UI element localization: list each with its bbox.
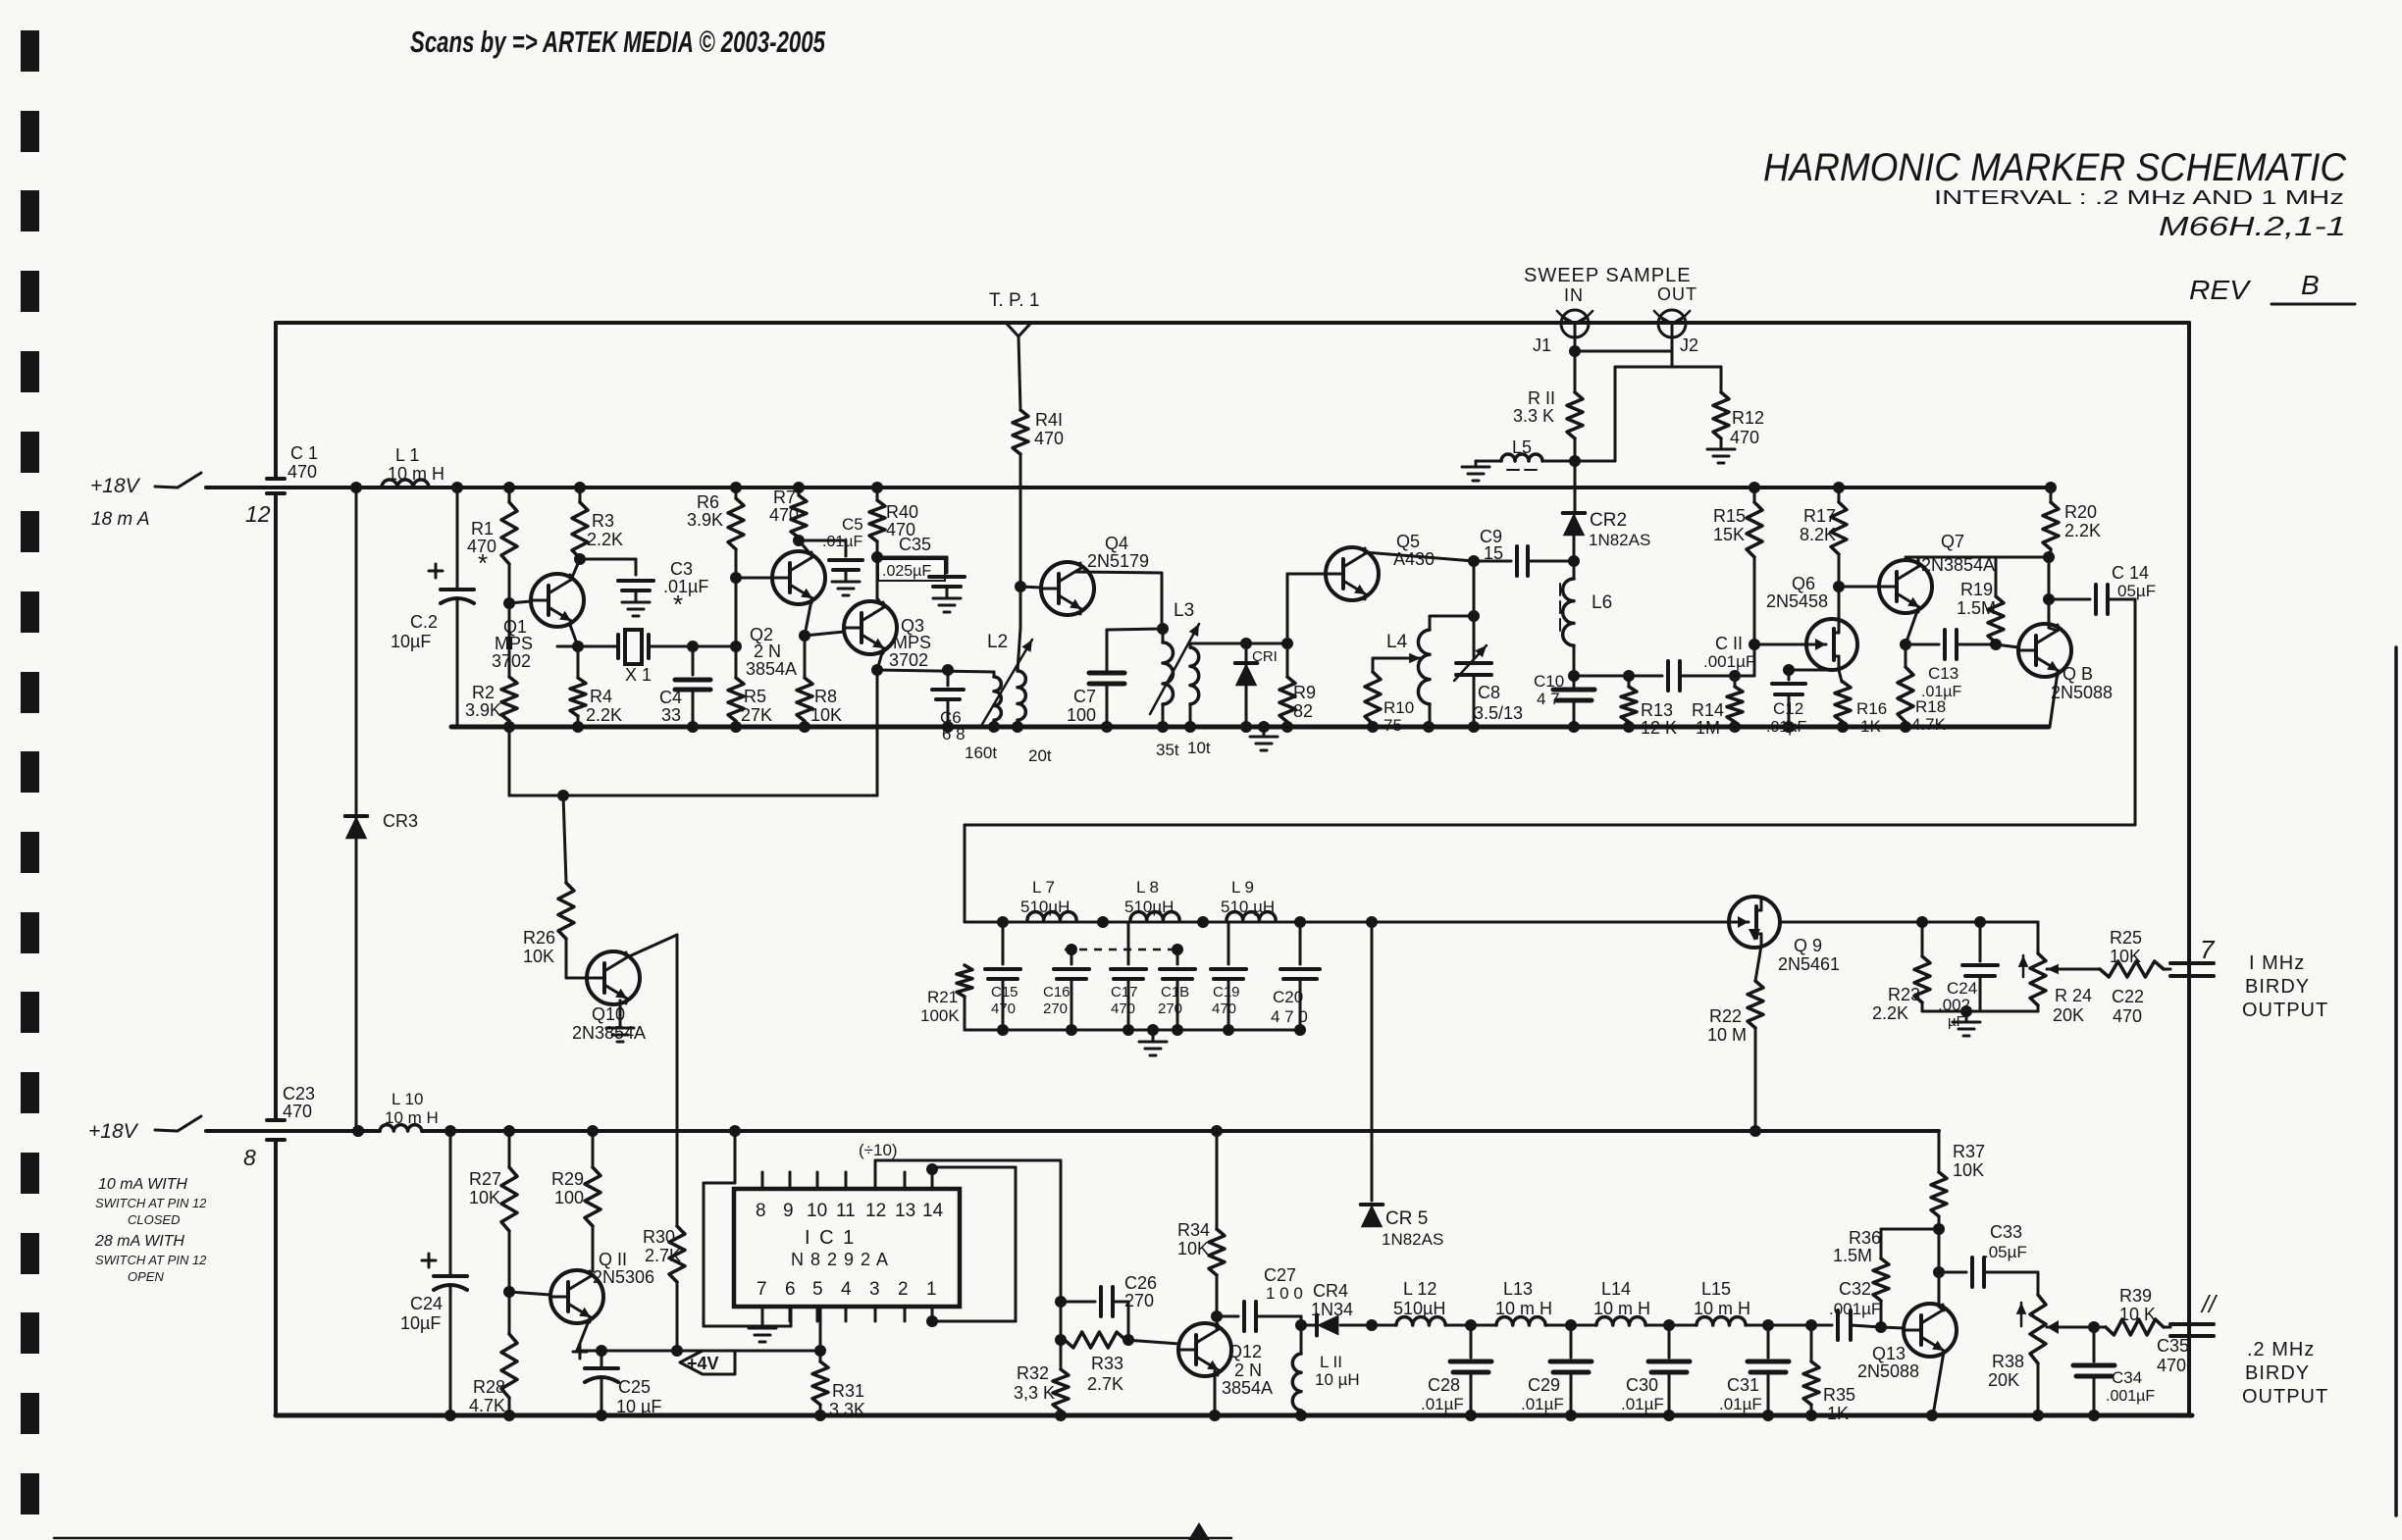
svg-text:.01µF: .01µF — [1766, 719, 1806, 736]
label .2MHz BIRDY OUTPUT — [2242, 1339, 2328, 1408]
svg-text:12 K: 12 K — [1641, 718, 1677, 738]
potentiometer R24 — [2018, 922, 2092, 1025]
capacitor C30 — [1621, 1319, 1690, 1421]
svg-text:470: 470 — [287, 462, 317, 482]
svg-text://: // — [2200, 1291, 2219, 1318]
resistor R20 — [2043, 482, 2101, 557]
potentiometer R38 — [1988, 1295, 2094, 1421]
resistor R7 — [769, 482, 811, 555]
capacitor C26 — [1061, 1273, 1157, 1340]
svg-text:C17: C17 — [1111, 984, 1138, 1001]
svg-text:.001µF: .001µF — [1829, 1300, 1881, 1318]
svg-text:2N5458: 2N5458 — [1766, 591, 1828, 611]
svg-text:R15: R15 — [1713, 506, 1746, 526]
resistor R41 — [1013, 410, 1064, 587]
inductor L15 — [1669, 1279, 1768, 1325]
svg-text:.01µF: .01µF — [1719, 1395, 1762, 1413]
capacitor C34 — [2073, 1321, 2155, 1421]
svg-text:3.3 K: 3.3 K — [1513, 406, 1554, 426]
wire bottom ground rail — [276, 1413, 2192, 1418]
svg-text:R 24: R 24 — [2055, 986, 2092, 1005]
svg-text:10 m H: 10 m H — [1694, 1299, 1750, 1318]
connector J2 — [1654, 310, 1698, 355]
svg-text:CLOSED: CLOSED — [128, 1212, 180, 1227]
node L6 bottom — [1568, 670, 1662, 682]
svg-text:R34: R34 — [1177, 1220, 1210, 1240]
resistor R30 — [643, 1226, 685, 1354]
svg-text:J2: J2 — [1680, 335, 1698, 355]
label 160t — [965, 744, 997, 762]
capacitor C18 — [1158, 944, 1195, 1030]
note 10 mA switch closed — [95, 1176, 207, 1227]
svg-text:C15: C15 — [991, 984, 1018, 1001]
wire filter bottom — [965, 1024, 1306, 1036]
svg-text:10 K: 10 K — [2119, 1305, 2156, 1324]
svg-text:L14: L14 — [1601, 1279, 1631, 1299]
capacitor C15 — [985, 922, 1020, 1030]
svg-text:BIRDY: BIRDY — [2245, 976, 2310, 998]
svg-text:OPEN: OPEN — [128, 1269, 164, 1284]
svg-text:100K: 100K — [920, 1006, 960, 1025]
svg-text:L13: L13 — [1503, 1279, 1533, 1299]
svg-text:7: 7 — [2200, 935, 2216, 964]
capacitor C6 — [932, 670, 966, 744]
svg-text:T. P. 1: T. P. 1 — [989, 290, 1039, 311]
svg-text:.001µF: .001µF — [1703, 652, 1755, 671]
svg-text:R37: R37 — [1953, 1142, 1985, 1161]
svg-text:470: 470 — [2113, 1006, 2142, 1026]
capacitor C33 — [1938, 1222, 2038, 1295]
resistor R16 — [1835, 670, 1887, 736]
svg-text:3,3 K: 3,3 K — [1014, 1383, 1055, 1403]
capacitor C27 — [1217, 1265, 1303, 1331]
svg-text:2N5179: 2N5179 — [1087, 551, 1149, 571]
svg-text:10 m H: 10 m H — [1495, 1299, 1552, 1318]
wire Q10 collector riser — [627, 935, 677, 1226]
svg-text:C16: C16 — [1043, 984, 1070, 1001]
svg-text:3.9K: 3.9K — [465, 700, 501, 720]
note 28 mA switch open — [94, 1233, 207, 1284]
svg-text:10K: 10K — [469, 1188, 500, 1207]
svg-text:35t: 35t — [1156, 741, 1179, 759]
svg-text:L 1: L 1 — [395, 445, 419, 465]
svg-text:L6: L6 — [1592, 592, 1612, 613]
svg-text:R18: R18 — [1915, 697, 1946, 716]
terminal 7 capacitor C22 — [2112, 935, 2216, 1026]
inductor L1 — [382, 445, 444, 488]
svg-text:18 m A: 18 m A — [91, 509, 150, 530]
capacitor C24 electrolytic — [400, 1131, 467, 1421]
svg-text:10K: 10K — [523, 947, 554, 966]
resistor R22 — [1707, 946, 1763, 1137]
svg-text:1K: 1K — [1860, 717, 1881, 736]
transistor Q7 — [1839, 532, 1995, 613]
terminal 11 capacitor C35 — [2157, 1291, 2219, 1375]
svg-text:12: 12 — [245, 501, 271, 527]
capacitor C2 electrolytic — [391, 482, 474, 727]
svg-text:C10: C10 — [1534, 672, 1564, 691]
svg-text:C8: C8 — [1478, 683, 1500, 702]
svg-text:R38: R38 — [1992, 1352, 2024, 1371]
svg-text:10K: 10K — [2110, 947, 2141, 966]
svg-text:2.7K: 2.7K — [645, 1246, 681, 1265]
svg-text:5: 5 — [812, 1279, 823, 1300]
ground under R12 — [1707, 449, 1735, 463]
svg-text:.2 MHz: .2 MHz — [2247, 1339, 2315, 1360]
svg-text:14: 14 — [922, 1201, 944, 1221]
label +18V upper — [90, 475, 141, 497]
svg-text:R25: R25 — [2110, 928, 2142, 948]
svg-text:C33: C33 — [1990, 1222, 2022, 1242]
svg-text:1.5M: 1.5M — [1957, 598, 1996, 618]
wire pin14 loop — [926, 1163, 1016, 1327]
fet Q6 — [1754, 574, 1857, 670]
wire Q13 collector node — [1933, 1229, 1945, 1310]
svg-text:L4: L4 — [1386, 632, 1408, 652]
subtitle M66H.2,1-1 — [2159, 211, 2346, 241]
svg-text:9: 9 — [783, 1201, 794, 1221]
svg-text:R8: R8 — [814, 687, 837, 706]
test point T.P.1 — [989, 290, 1039, 410]
svg-text:SWITCH AT PIN 12: SWITCH AT PIN 12 — [95, 1196, 207, 1210]
resistor R32 — [1014, 1296, 1069, 1421]
svg-text:3.9K: 3.9K — [687, 510, 723, 530]
svg-text:20K: 20K — [1988, 1370, 2019, 1390]
resistor R40 — [869, 482, 918, 606]
wire divider bottom — [1922, 1005, 2038, 1017]
resistor R26 — [523, 790, 574, 978]
resistor R8 — [797, 600, 842, 733]
svg-text:R3: R3 — [592, 511, 614, 531]
svg-text:C26: C26 — [1124, 1273, 1157, 1293]
wire Q13 emitter — [1926, 1352, 1944, 1421]
svg-text:R2: R2 — [472, 683, 495, 702]
resistor R15 — [1713, 482, 1762, 676]
svg-text:15: 15 — [1484, 543, 1503, 563]
svg-text:R4: R4 — [590, 687, 612, 706]
svg-text:R9: R9 — [1293, 683, 1316, 702]
transistor Q1 — [492, 574, 584, 671]
svg-text:2.2K: 2.2K — [586, 705, 622, 725]
svg-text:C5: C5 — [842, 515, 863, 534]
svg-text:.01µF: .01µF — [1621, 1395, 1664, 1413]
svg-text:M66H.2,1-1: M66H.2,1-1 — [2159, 211, 2346, 241]
capacitor C14 — [2049, 563, 2156, 614]
svg-text:2.2K: 2.2K — [1872, 1003, 1908, 1023]
svg-text:L3: L3 — [1174, 600, 1194, 621]
svg-text:+4V: +4V — [687, 1354, 719, 1373]
svg-text:10K: 10K — [1177, 1239, 1209, 1258]
resistor R25 — [2080, 928, 2170, 977]
resistor R27 — [469, 1125, 517, 1298]
resistor R33 — [1065, 1332, 1179, 1394]
svg-text:.001µF: .001µF — [2106, 1388, 2155, 1405]
svg-text:82: 82 — [1293, 701, 1313, 721]
svg-text:10 M: 10 M — [1707, 1025, 1747, 1045]
transistor Q10 — [566, 951, 646, 1043]
svg-text:C35: C35 — [899, 535, 931, 554]
svg-text:7: 7 — [757, 1279, 767, 1300]
capacitor C19 — [1211, 922, 1246, 1030]
svg-text:Q 9: Q 9 — [1794, 936, 1822, 955]
resistor R11 — [1513, 351, 1583, 461]
svg-text:10 µF: 10 µF — [616, 1397, 661, 1416]
transistor Q12 — [1178, 1323, 1273, 1398]
page bottom edge line — [54, 1537, 1231, 1540]
svg-text:.01µF: .01µF — [663, 577, 708, 596]
svg-text:11: 11 — [836, 1201, 856, 1221]
svg-text:1: 1 — [926, 1279, 937, 1300]
resistor R5 — [728, 646, 772, 733]
svg-text:4 7: 4 7 — [1537, 690, 1560, 708]
wire pin12 to divider feed — [875, 1160, 1061, 1302]
svg-text:6 8: 6 8 — [942, 725, 966, 744]
transistor Q13 — [1857, 1304, 1957, 1381]
scan credit line — [410, 25, 826, 59]
inductor L9 — [1221, 878, 1276, 920]
resistor R28 — [469, 1292, 517, 1421]
revision REV B — [2189, 270, 2355, 305]
label SWEEP SAMPLE — [1524, 265, 1692, 286]
svg-text:4.7K: 4.7K — [1911, 715, 1947, 734]
svg-text:10K: 10K — [1953, 1160, 1984, 1180]
svg-text:R4I: R4I — [1035, 410, 1063, 430]
svg-text:8.2K: 8.2K — [1800, 525, 1836, 544]
svg-text:1.5M: 1.5M — [1833, 1246, 1872, 1265]
inductor L4 tapped — [1386, 561, 1480, 733]
ic IC1 N8292A — [734, 1172, 960, 1321]
svg-text:B: B — [2301, 270, 2320, 300]
svg-text:33: 33 — [661, 705, 681, 725]
inductor L8 — [1124, 878, 1179, 920]
svg-text:.025µF: .025µF — [882, 563, 931, 580]
svg-text:C23: C23 — [283, 1084, 315, 1104]
capacitor C31 — [1719, 1319, 1789, 1421]
svg-text:3: 3 — [869, 1279, 880, 1300]
ground left of L5 — [1462, 461, 1489, 481]
diode CR5 — [1361, 1205, 1444, 1249]
capacitor C32 — [1768, 1279, 1881, 1340]
wire Q9 drain to divider — [1780, 916, 2038, 928]
capacitor C17 — [1111, 922, 1146, 1030]
svg-text:3854A: 3854A — [1222, 1378, 1273, 1398]
capacitor C13 — [1900, 608, 1996, 700]
svg-text:R7: R7 — [773, 488, 796, 507]
inductor L2 variable — [981, 587, 1032, 733]
wire filter output riser — [1371, 922, 1374, 1201]
label divide by 10 — [859, 1141, 898, 1159]
svg-text:R26: R26 — [523, 928, 555, 948]
svg-text:REV: REV — [2189, 275, 2251, 305]
wire Q8 emitter to bus — [2050, 672, 2058, 727]
svg-text:J1: J1 — [1533, 335, 1551, 355]
svg-text:470: 470 — [2157, 1356, 2186, 1375]
switch at +18V lower feed — [155, 1116, 201, 1131]
svg-text:CR3: CR3 — [383, 811, 418, 831]
node Q4 base — [1015, 581, 1026, 592]
svg-text:470: 470 — [991, 1001, 1016, 1017]
wire pin 6 stub — [704, 1125, 791, 1326]
svg-text:L 9: L 9 — [1231, 878, 1254, 897]
inductor L10 — [352, 1090, 456, 1137]
label 10t — [1187, 739, 1211, 757]
svg-text:510µH: 510µH — [1020, 898, 1070, 916]
svg-text:Q4: Q4 — [1105, 534, 1128, 553]
resistor R36 — [1833, 1228, 1939, 1333]
svg-text:10µF: 10µF — [400, 1313, 441, 1333]
transistor Q2 — [736, 551, 825, 679]
svg-text:SWEEP SAMPLE: SWEEP SAMPLE — [1524, 265, 1692, 286]
svg-text:R22: R22 — [1709, 1006, 1742, 1026]
svg-text:C22: C22 — [2112, 987, 2144, 1006]
svg-text:510 µH: 510 µH — [1221, 898, 1275, 916]
svg-text:C3: C3 — [670, 559, 693, 579]
svg-text:MPS: MPS — [495, 634, 533, 653]
svg-text:CR4: CR4 — [1313, 1281, 1348, 1301]
wire sweep to CR2 — [1574, 461, 1577, 514]
resistor R9 — [1279, 643, 1316, 733]
svg-text:Q II: Q II — [599, 1250, 627, 1269]
svg-text:R16: R16 — [1856, 699, 1887, 718]
ground under C35 — [933, 598, 961, 612]
svg-text:R17: R17 — [1803, 506, 1836, 526]
svg-text:10 mA WITH: 10 mA WITH — [98, 1176, 187, 1193]
ground under C3 — [622, 602, 650, 616]
wire Q12 emitter — [1209, 1371, 1221, 1421]
svg-text:2: 2 — [898, 1279, 909, 1300]
svg-text:2 N: 2 N — [1234, 1360, 1262, 1380]
svg-text:20t: 20t — [1028, 746, 1052, 765]
wire Q8 collector C14 node — [2043, 557, 2058, 631]
svg-text:20K: 20K — [2053, 1005, 2084, 1025]
diode CR1 — [1235, 643, 1278, 733]
svg-text:C27: C27 — [1264, 1265, 1296, 1285]
node Q1 base junction — [503, 482, 515, 733]
svg-text:C1B: C1B — [1161, 984, 1189, 1001]
svg-text:470: 470 — [1212, 1001, 1236, 1017]
svg-text:Q7: Q7 — [1941, 532, 1964, 551]
wire +18V upper rail — [206, 486, 2051, 489]
svg-text:(÷10): (÷10) — [859, 1141, 898, 1159]
svg-text:I C 1: I C 1 — [805, 1227, 856, 1249]
svg-text:C31: C31 — [1727, 1375, 1759, 1395]
label terminal 8 — [243, 1145, 256, 1170]
capacitor C12 — [1766, 664, 1839, 736]
svg-text:C28: C28 — [1428, 1375, 1460, 1395]
svg-text:L 8: L 8 — [1136, 878, 1159, 897]
svg-text:C25: C25 — [618, 1377, 651, 1397]
diode CR3 — [345, 482, 418, 1131]
capacitor C24 — [1938, 922, 1998, 1030]
capacitor C7 — [1067, 629, 1163, 733]
svg-text:2N3854A: 2N3854A — [572, 1023, 646, 1043]
resistor R2 — [465, 603, 517, 727]
svg-text:100: 100 — [1067, 705, 1096, 725]
wire X1 to R5 node — [693, 645, 736, 648]
svg-text:2N5306: 2N5306 — [593, 1267, 654, 1287]
label 1MHz BIRDY OUTPUT — [2242, 952, 2328, 1021]
svg-text:R6: R6 — [697, 492, 719, 512]
svg-text:C20: C20 — [1273, 988, 1303, 1006]
svg-text:R10: R10 — [1384, 698, 1414, 717]
svg-text:510µH: 510µH — [1393, 1299, 1445, 1318]
svg-text:*: * — [478, 548, 488, 578]
svg-text:+18V: +18V — [90, 475, 141, 497]
flag +4V — [680, 1351, 735, 1374]
resistor R23 — [1872, 922, 1930, 1023]
svg-text:CRI: CRI — [1252, 648, 1278, 665]
svg-text:HARMONIC MARKER SCHEMATIC: HARMONIC MARKER SCHEMATIC — [1763, 146, 2347, 189]
svg-text:Q6: Q6 — [1792, 574, 1815, 593]
transistor Q3 — [805, 601, 931, 670]
svg-text:+18V: +18V — [88, 1120, 139, 1143]
wire feedback loop lower — [509, 670, 877, 796]
svg-text:C35: C35 — [2157, 1336, 2189, 1356]
svg-text:10µF: 10µF — [391, 632, 431, 651]
node sweep junction — [1569, 367, 1721, 467]
svg-text:R28: R28 — [473, 1377, 505, 1397]
svg-text:L15: L15 — [1701, 1279, 1731, 1299]
inductor L14 — [1571, 1279, 1669, 1325]
node Q1 collector — [571, 482, 636, 580]
svg-text:OUTPUT: OUTPUT — [2242, 1386, 2328, 1408]
svg-text:4.7K: 4.7K — [469, 1396, 505, 1415]
resistor R19 — [1957, 557, 2004, 650]
svg-text:10: 10 — [807, 1201, 827, 1221]
inductor L7 — [1020, 878, 1076, 920]
resistor R3 — [572, 488, 623, 558]
svg-text:270: 270 — [1043, 1001, 1068, 1017]
svg-text:R31: R31 — [832, 1381, 864, 1401]
label terminal 12 — [245, 501, 271, 527]
svg-text:R40: R40 — [886, 502, 918, 522]
wire Q7 collector to R20 — [1906, 551, 2055, 565]
connector J1 — [1533, 310, 1593, 355]
svg-text:05µF: 05µF — [2117, 582, 2156, 600]
svg-text:I MHz: I MHz — [2249, 952, 2305, 974]
svg-text:470: 470 — [769, 505, 799, 525]
svg-text:R13: R13 — [1641, 700, 1673, 720]
svg-text:1N82AS: 1N82AS — [1382, 1230, 1443, 1249]
svg-text:R33: R33 — [1091, 1354, 1123, 1373]
svg-text:270: 270 — [1158, 1001, 1182, 1017]
svg-text:C19: C19 — [1213, 984, 1240, 1001]
resistor R31 — [812, 1307, 865, 1421]
ground on bus — [1250, 721, 1278, 750]
svg-text:13: 13 — [895, 1201, 915, 1221]
svg-text:R21: R21 — [927, 988, 958, 1006]
svg-text:Q13: Q13 — [1872, 1344, 1906, 1363]
svg-text:R39: R39 — [2119, 1286, 2152, 1306]
svg-text:3.5/13: 3.5/13 — [1474, 703, 1523, 723]
svg-text:100: 100 — [554, 1188, 584, 1207]
wire left edge vertical — [274, 323, 278, 1415]
svg-text:12: 12 — [865, 1201, 886, 1221]
svg-text:3702: 3702 — [492, 651, 531, 671]
transistor Q5 — [1287, 532, 1435, 643]
diode CR4 — [1295, 1281, 1378, 1336]
capacitor C1 feedthrough — [267, 443, 318, 493]
wire +18V lower rail — [206, 1129, 1939, 1133]
fet Q9 — [1729, 897, 1840, 974]
svg-text:C34: C34 — [2112, 1368, 2142, 1387]
page right edge line — [2394, 647, 2398, 1515]
svg-text:C II: C II — [1715, 634, 1743, 653]
svg-text:L 12: L 12 — [1403, 1279, 1436, 1299]
inductor L13 — [1471, 1279, 1571, 1325]
svg-text:75: 75 — [1384, 716, 1402, 735]
svg-text:C 14: C 14 — [2112, 563, 2149, 583]
